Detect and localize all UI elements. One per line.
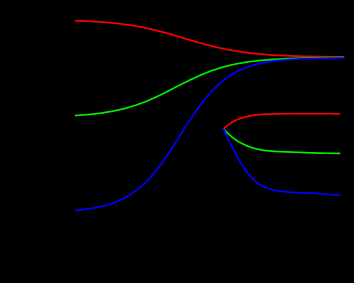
- green curve 2 (fork middle branch): [224, 129, 340, 153]
- blue curve 2 (fork lower branch): [224, 129, 340, 195]
- red curve 2 (fork upper branch): [224, 114, 340, 129]
- red curve 1 (upper descending sigmoid): [76, 21, 344, 57]
- green curve 1 (middle ascending sigmoid): [76, 58, 344, 116]
- blue curve 1 (lower steep sigmoid): [76, 58, 344, 210]
